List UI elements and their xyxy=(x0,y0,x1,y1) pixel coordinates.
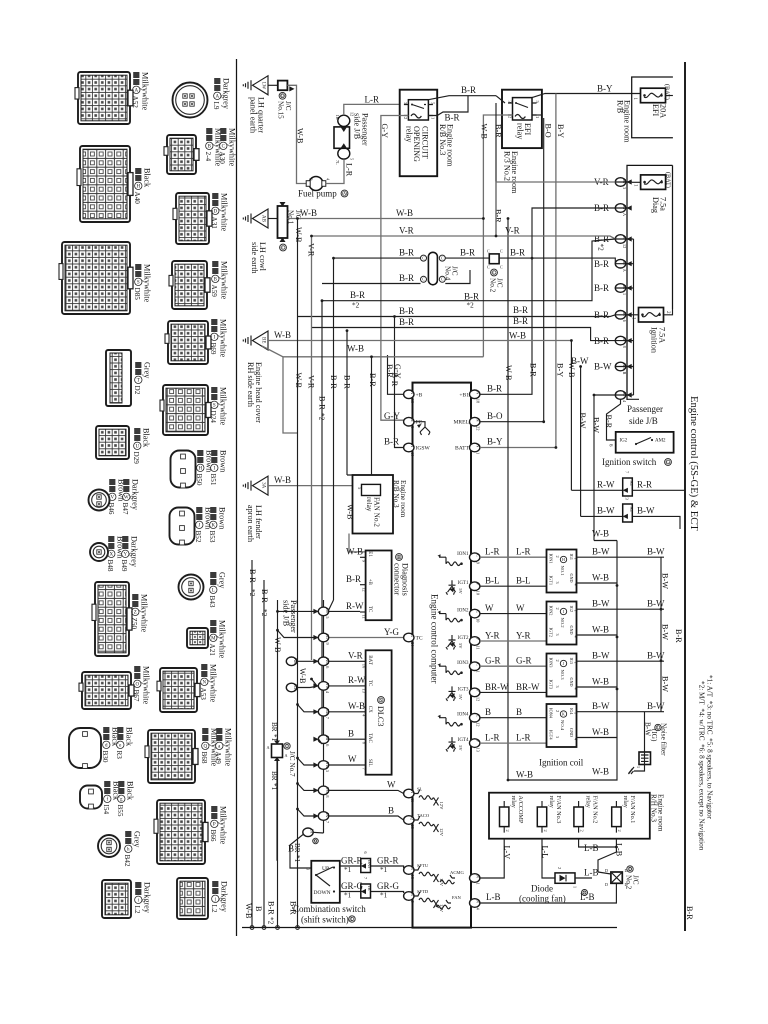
igniter sense resistor ION3 xyxy=(439,666,446,673)
svg-text:5: 5 xyxy=(350,158,355,160)
svg-text:1: 1 xyxy=(476,671,481,673)
svg-text:IGT3: IGT3 xyxy=(458,687,469,692)
svg-text:Darkgrey: Darkgrey xyxy=(142,882,151,914)
svg-text:U: U xyxy=(135,444,139,449)
svg-text:B: B xyxy=(516,707,522,717)
svg-text:CX: CX xyxy=(367,706,372,713)
svg-text:W-B: W-B xyxy=(298,668,307,684)
label: connector B48 xyxy=(106,536,124,572)
relay box: engine room R/H No.3 xyxy=(489,793,650,839)
svg-text:R/B No.3: R/B No.3 xyxy=(392,480,400,508)
svg-text:C: C xyxy=(476,715,481,718)
ground J/C No.15 LH quarter panel earth xyxy=(243,76,268,95)
wire: W-B fan relay down to diagnosis xyxy=(349,534,366,552)
connector B52 brown xyxy=(170,508,195,545)
svg-text:*1: *1 xyxy=(344,892,352,900)
label: connector B66 xyxy=(209,806,227,845)
svg-text:B-R: B-R xyxy=(399,306,414,316)
svg-text:LW: LW xyxy=(261,82,266,90)
svg-text:Milkywhite: Milkywhite xyxy=(218,319,227,358)
wire: ground2 to box xyxy=(268,218,278,220)
svg-text:panel earth: panel earth xyxy=(249,97,258,133)
switch: ignition switch box xyxy=(608,432,674,453)
connector D85 milkywhite xyxy=(59,242,133,314)
svg-text:B: B xyxy=(254,906,263,912)
svg-text:W-B: W-B xyxy=(346,547,363,557)
svg-text:Diode: Diode xyxy=(531,884,553,894)
svg-text:B50: B50 xyxy=(195,474,203,486)
wire: vertical divider line xyxy=(236,59,238,936)
wire: Y-G row xyxy=(324,637,404,639)
svg-text:S: S xyxy=(137,280,140,285)
svg-text:2: 2 xyxy=(555,556,560,558)
svg-text:12V: 12V xyxy=(439,802,444,811)
svg-text:N: N xyxy=(202,680,206,685)
node bus terminal NU6 xyxy=(313,657,330,668)
svg-text:B-Y: B-Y xyxy=(556,124,565,138)
svg-text:Engine control computer: Engine control computer xyxy=(430,594,440,683)
svg-text:9: 9 xyxy=(410,901,415,903)
svg-text:Grey: Grey xyxy=(142,362,151,379)
node terminal ILB xyxy=(286,683,296,692)
node DLC3 pin BAT xyxy=(360,660,366,662)
svg-text:BR: BR xyxy=(270,722,278,732)
svg-text:26: 26 xyxy=(410,825,415,829)
label: connector A59 xyxy=(210,261,228,300)
junction J/C No.2 bottom xyxy=(605,868,628,887)
wire B-W coil1 IG xyxy=(577,556,665,558)
node bus terminal VG8 xyxy=(313,786,330,797)
svg-text:1K: 1K xyxy=(367,886,372,891)
label: connector A53 xyxy=(199,664,217,703)
svg-text:3: 3 xyxy=(555,582,560,584)
svg-text:2: 2 xyxy=(555,660,560,662)
svg-text:11: 11 xyxy=(362,615,367,619)
svg-text:L-R: L-R xyxy=(485,733,500,743)
svg-text:G-Y: G-Y xyxy=(384,411,400,421)
node J/B terminal IB3 xyxy=(615,178,631,189)
label: connector A52 xyxy=(131,72,149,111)
svg-text:N: N xyxy=(476,900,481,903)
svg-text:NO.2: NO.2 xyxy=(560,618,565,629)
svg-text:B-W: B-W xyxy=(647,599,665,609)
wire: V-R rail y236 xyxy=(312,236,616,239)
wire: W-B bus + coils bottom rail xyxy=(508,541,617,781)
svg-text:V-R: V-R xyxy=(306,375,315,389)
connector L9 darkgrey xyxy=(173,83,208,118)
svg-text:H: H xyxy=(562,557,565,562)
label: connector D29 xyxy=(132,428,150,464)
svg-text:B-W: B-W xyxy=(571,356,589,366)
svg-text:18: 18 xyxy=(476,399,481,403)
svg-text:O: O xyxy=(135,682,139,687)
wire: B-R +B1 to right xyxy=(480,258,532,394)
igniter sense resistor ION4 xyxy=(439,718,446,725)
svg-text:B-L: B-L xyxy=(516,576,531,586)
svg-text:BR: BR xyxy=(293,843,301,853)
component: Passenger side J/B block (fuel pump) xyxy=(334,112,355,165)
svg-text:relay: relay xyxy=(405,126,414,143)
svg-text:L-V: L-V xyxy=(503,846,512,860)
svg-text:B-R: B-R xyxy=(510,247,525,257)
svg-text:Grey: Grey xyxy=(217,572,226,589)
svg-text:Milkywhite: Milkywhite xyxy=(140,72,149,111)
svg-text:9: 9 xyxy=(315,840,317,844)
svg-text:B-W: B-W xyxy=(592,417,601,433)
svg-text:M: M xyxy=(211,636,216,641)
svg-text:*1: *1 xyxy=(380,866,388,874)
svg-text:2: 2 xyxy=(505,830,510,832)
svg-text:Milkywhite: Milkywhite xyxy=(227,128,236,167)
svg-text:B-R: B-R xyxy=(494,209,503,223)
igniter transistor IGT4 xyxy=(446,737,463,752)
svg-text:C: C xyxy=(476,610,481,613)
connector D29 black xyxy=(96,426,129,459)
svg-text:B-R: B-R xyxy=(487,384,502,394)
svg-text:B-R: B-R xyxy=(390,373,399,387)
svg-text:V-R: V-R xyxy=(348,651,363,661)
svg-text:ION4: ION4 xyxy=(457,713,469,718)
svg-text:3: 3 xyxy=(555,736,560,738)
svg-text:B: B xyxy=(485,707,491,717)
svg-text:B-R: B-R xyxy=(461,85,476,95)
svg-text:B51: B51 xyxy=(209,474,217,486)
svg-text:B-L: B-L xyxy=(485,576,500,586)
junction dots bottom rail xyxy=(250,926,254,930)
svg-text:B-W: B-W xyxy=(647,651,665,661)
node ECU pin None P12 xyxy=(470,688,481,701)
wire: W-B from J/C No.15 down to fuel pump xyxy=(287,85,307,183)
svg-text:2: 2 xyxy=(543,830,548,832)
svg-text:L9: L9 xyxy=(212,102,220,110)
svg-text:B-R: B-R xyxy=(445,113,460,123)
svg-text:10: 10 xyxy=(410,452,415,456)
svg-text:B67: B67 xyxy=(132,690,140,702)
svg-text:B-R: B-R xyxy=(594,310,609,320)
svg-text:R/B No.3: R/B No.3 xyxy=(438,124,447,155)
svg-text:ACMG: ACMG xyxy=(450,870,464,875)
label: connector L2b xyxy=(210,881,228,913)
svg-text:B68: B68 xyxy=(200,752,208,764)
svg-text:B47: B47 xyxy=(121,503,129,515)
svg-text:C: C xyxy=(500,265,503,270)
svg-text:T: T xyxy=(286,744,289,749)
svg-text:W-B: W-B xyxy=(516,770,533,780)
svg-text:C: C xyxy=(500,249,503,254)
relay F/AN No.1 xyxy=(612,796,637,833)
svg-text:GR-G: GR-G xyxy=(341,881,363,891)
svg-text:V-R: V-R xyxy=(306,243,315,257)
wire: J/B rows to bus xyxy=(615,182,633,395)
wire: B-W verticals below J/B xyxy=(571,341,615,541)
svg-text:W: W xyxy=(485,603,494,613)
svg-text:N: N xyxy=(410,419,415,422)
svg-text:H: H xyxy=(198,466,202,471)
junction box LH cowl xyxy=(278,206,288,238)
node ECU pin None P11 xyxy=(470,637,481,650)
svg-text:2-4: 2-4 xyxy=(204,152,212,162)
junction J/C No.4 xyxy=(421,252,446,284)
wire: drop to noise filter xyxy=(644,712,646,752)
connector B46 brown xyxy=(89,490,110,511)
relay F/AN No.3 xyxy=(537,796,562,833)
label: connector A21 xyxy=(208,620,226,659)
svg-text:*2: M/T *4: w/TRC *6: 8 spea: *2: M/T *4: w/TRC *6: 8 speakers, except… xyxy=(698,681,706,851)
svg-text:P: P xyxy=(213,822,216,827)
svg-text:L-B: L-B xyxy=(584,843,599,853)
svg-text:3: 3 xyxy=(410,426,415,428)
label: connector Z50 xyxy=(130,594,148,633)
svg-text:AM2: AM2 xyxy=(655,439,666,444)
svg-text:D24: D24 xyxy=(209,411,217,424)
svg-text:1K: 1K xyxy=(335,115,340,120)
wire: W-B from EFI relay pin2 xyxy=(483,115,512,219)
svg-text:L-B: L-B xyxy=(486,892,501,902)
svg-text:ION3: ION3 xyxy=(549,658,554,669)
svg-text:W-B: W-B xyxy=(504,365,513,381)
wire: L-R fuel pump to J/B xyxy=(326,160,344,184)
igniter transistor IGT1 xyxy=(446,580,463,595)
svg-text:B-W: B-W xyxy=(661,573,670,589)
wire: B-R rail y283 xyxy=(322,270,470,284)
svg-text:G-Y: G-Y xyxy=(380,124,389,139)
svg-text:*2: *2 xyxy=(260,609,268,617)
svg-text:B-R: B-R xyxy=(399,247,414,257)
svg-text:Milkywhite: Milkywhite xyxy=(218,806,227,845)
connector L2b darkgrey xyxy=(177,878,208,919)
node diagnosis pin E1 xyxy=(360,556,366,558)
svg-text:B-R: B-R xyxy=(343,375,352,389)
node ECU pin +B1 N18 xyxy=(459,390,480,403)
sensor symbol TACO xyxy=(414,813,444,837)
svg-text:W-B: W-B xyxy=(592,727,609,737)
svg-text:TC: TC xyxy=(367,680,372,687)
relay: FAN No.2 box xyxy=(353,475,394,534)
svg-text:F/AN No.2: F/AN No.2 xyxy=(591,796,598,824)
svg-text:IG3: IG3 xyxy=(569,658,574,665)
svg-text:7: 7 xyxy=(325,821,330,823)
svg-text:K: K xyxy=(562,712,565,717)
svg-text:BR-W: BR-W xyxy=(485,682,509,692)
svg-text:TAC: TAC xyxy=(367,733,372,743)
svg-text:B-R: B-R xyxy=(318,396,327,410)
svg-text:Black: Black xyxy=(141,428,150,448)
ignition coil 3 xyxy=(547,654,579,697)
svg-text:B-W: B-W xyxy=(594,362,612,372)
svg-text:Z: Z xyxy=(134,610,137,615)
svg-text:L2: L2 xyxy=(133,906,141,914)
svg-text:G-R: G-R xyxy=(485,656,501,666)
junction dots xyxy=(296,217,299,220)
node ECU pin IGSW N10 xyxy=(404,443,431,456)
svg-text:B66: B66 xyxy=(209,830,217,842)
svg-text:Milkywhite: Milkywhite xyxy=(217,620,226,659)
connector B50 brown xyxy=(171,451,196,488)
svg-text:FAN: FAN xyxy=(452,895,462,900)
svg-text:Black: Black xyxy=(142,168,151,188)
svg-text:N: N xyxy=(410,893,415,896)
svg-text:B: B xyxy=(348,728,354,738)
fuse 7.5A Diag with bracket xyxy=(627,165,673,400)
junction J/C No.2 top xyxy=(487,249,503,270)
wire: B-O vertical xyxy=(543,118,545,422)
svg-text:D: D xyxy=(605,882,608,887)
svg-text:B53: B53 xyxy=(208,531,216,543)
svg-text:3A: 3A xyxy=(261,482,266,489)
ground noise filter xyxy=(634,765,645,772)
svg-text:Combination switch: Combination switch xyxy=(293,904,366,914)
svg-text:*2: *2 xyxy=(597,244,605,252)
svg-text:B-R: B-R xyxy=(399,317,414,327)
svg-text:C: C xyxy=(422,278,425,282)
wire B ION4 to coil xyxy=(480,717,547,719)
svg-text:5V: 5V xyxy=(458,745,463,751)
label: connector B52 xyxy=(194,507,212,543)
svg-text:6: 6 xyxy=(363,852,368,854)
wire: step jog left bundle xyxy=(283,357,298,433)
svg-text:B-W: B-W xyxy=(647,701,665,711)
connector A40 black xyxy=(77,146,133,222)
svg-text:W-B: W-B xyxy=(244,903,253,919)
svg-text:A: A xyxy=(215,94,219,99)
svg-text:1: 1 xyxy=(535,116,540,118)
svg-text:ION1: ION1 xyxy=(457,552,469,557)
svg-text:B-R: B-R xyxy=(260,589,269,603)
svg-text:L-R: L-R xyxy=(345,163,354,177)
label: connector B68 xyxy=(200,728,218,767)
svg-text:AB: AB xyxy=(261,215,266,223)
svg-text:W-B: W-B xyxy=(294,227,303,243)
node J/B terminal IGA xyxy=(615,204,631,216)
svg-text:12: 12 xyxy=(362,587,367,591)
wire: GR-G row xyxy=(340,892,404,894)
connector A53 milkywhite xyxy=(157,668,200,712)
connector L2 darkgrey xyxy=(102,880,131,918)
svg-text:W-B: W-B xyxy=(347,344,364,354)
svg-text:Milkywhite: Milkywhite xyxy=(142,264,151,303)
ignition coil 4 xyxy=(547,704,579,747)
node DLC3 pin CX xyxy=(360,711,366,713)
wire: W-B row to coil area xyxy=(594,540,617,542)
wire W-B coil1 GND xyxy=(577,582,618,584)
svg-text:A: A xyxy=(134,88,138,93)
node DLC3 pin TC xyxy=(360,685,366,687)
transistor inside ECU at FC xyxy=(414,422,430,435)
svg-text:B-O: B-O xyxy=(544,124,553,138)
svg-text:B-W: B-W xyxy=(592,547,610,557)
label: connector A49 xyxy=(214,728,232,767)
svg-text:B-W: B-W xyxy=(661,676,670,692)
svg-text:+B1: +B1 xyxy=(459,392,469,398)
svg-text:No.1: No.1 xyxy=(287,210,295,225)
svg-text:B: B xyxy=(622,372,627,375)
connector B48 xyxy=(90,543,108,561)
svg-text:S: S xyxy=(380,698,383,703)
wire G-R ION3 to coil xyxy=(480,665,547,667)
svg-text:11: 11 xyxy=(476,646,481,650)
node bus terminal IN5 xyxy=(313,607,330,618)
node ECU pin None P10 xyxy=(470,582,481,595)
label: connector B69 xyxy=(209,319,227,358)
node bus terminal IX7 xyxy=(313,812,330,823)
svg-text:B42: B42 xyxy=(123,855,131,867)
svg-text:C: C xyxy=(487,265,490,270)
svg-text:R-W: R-W xyxy=(346,601,364,611)
sensor symbol SFTU xyxy=(414,863,444,887)
ignition coil 1 xyxy=(547,550,579,593)
svg-text:W-B: W-B xyxy=(346,504,355,520)
node J/B terminal IGA xyxy=(615,259,631,271)
node diagnosis pin +B xyxy=(360,584,366,586)
node ECU pin None C1 xyxy=(470,662,481,673)
svg-text:GND: GND xyxy=(569,678,574,687)
svg-text:L-B: L-B xyxy=(584,868,599,878)
wire B-L IGT1 to coil xyxy=(480,585,547,587)
relay: CIRCUIT OPENING relay box xyxy=(400,90,438,177)
svg-text:N: N xyxy=(410,444,415,447)
svg-text:*2: *2 xyxy=(467,302,475,310)
connector B66 milkywhite xyxy=(154,800,208,864)
svg-text:3: 3 xyxy=(555,686,560,688)
svg-text:(BAT): (BAT) xyxy=(664,84,671,100)
svg-text:C: C xyxy=(487,249,490,254)
connector: DLC3 box xyxy=(366,650,392,774)
connector A21 milkywhite xyxy=(187,628,208,648)
svg-text:2: 2 xyxy=(555,608,560,610)
svg-text:E1: E1 xyxy=(367,551,372,557)
node ECU pin +B N16 xyxy=(404,390,423,403)
svg-text:K: K xyxy=(211,523,215,528)
svg-text:11: 11 xyxy=(410,798,415,802)
node ECU pin None C12 xyxy=(470,713,481,726)
svg-text:R/3 No.2: R/3 No.2 xyxy=(503,151,512,181)
svg-text:NO.4: NO.4 xyxy=(560,720,565,731)
svg-text:A/CCOMP: A/CCOMP xyxy=(517,796,524,824)
svg-text:1: 1 xyxy=(573,886,578,888)
label: connector B47 xyxy=(121,479,139,515)
node J/B terminal J612 xyxy=(615,235,631,248)
svg-text:*2: *2 xyxy=(352,302,360,310)
svg-text:Noise filter: Noise filter xyxy=(660,723,668,756)
connector Z50 milkywhite xyxy=(92,582,132,656)
fuel pump motor xyxy=(306,177,330,191)
svg-text:A1: A1 xyxy=(629,481,634,487)
svg-text:ION4: ION4 xyxy=(549,708,554,719)
label: connector B51 xyxy=(209,450,227,486)
node ECU pin None N1 xyxy=(470,874,481,885)
wire: B-R rail y330 xyxy=(312,328,616,341)
svg-text:C: C xyxy=(441,257,444,261)
label: connector B43 xyxy=(208,572,226,608)
node ECU pin None G24 xyxy=(404,633,415,647)
svg-text:2: 2 xyxy=(557,867,562,869)
svg-text:B-O: B-O xyxy=(487,411,503,421)
svg-text:B-W: B-W xyxy=(637,506,655,516)
svg-text:N: N xyxy=(476,875,481,878)
label: connector L9 xyxy=(212,78,230,110)
svg-text:R/B: R/B xyxy=(616,100,625,114)
svg-text:DA3: DA3 xyxy=(367,860,372,868)
svg-text:B-W: B-W xyxy=(597,506,615,516)
svg-text:B-R: B-R xyxy=(368,373,377,387)
svg-text:A52: A52 xyxy=(131,96,139,109)
node bus terminal V04 xyxy=(313,682,330,694)
svg-text:IGT4: IGT4 xyxy=(549,730,554,740)
svg-text:W-B: W-B xyxy=(296,128,305,144)
svg-text:W-B: W-B xyxy=(348,701,365,711)
svg-text:No.2: No.2 xyxy=(489,278,497,293)
wire Y-R IGT2 to coil xyxy=(480,640,547,642)
